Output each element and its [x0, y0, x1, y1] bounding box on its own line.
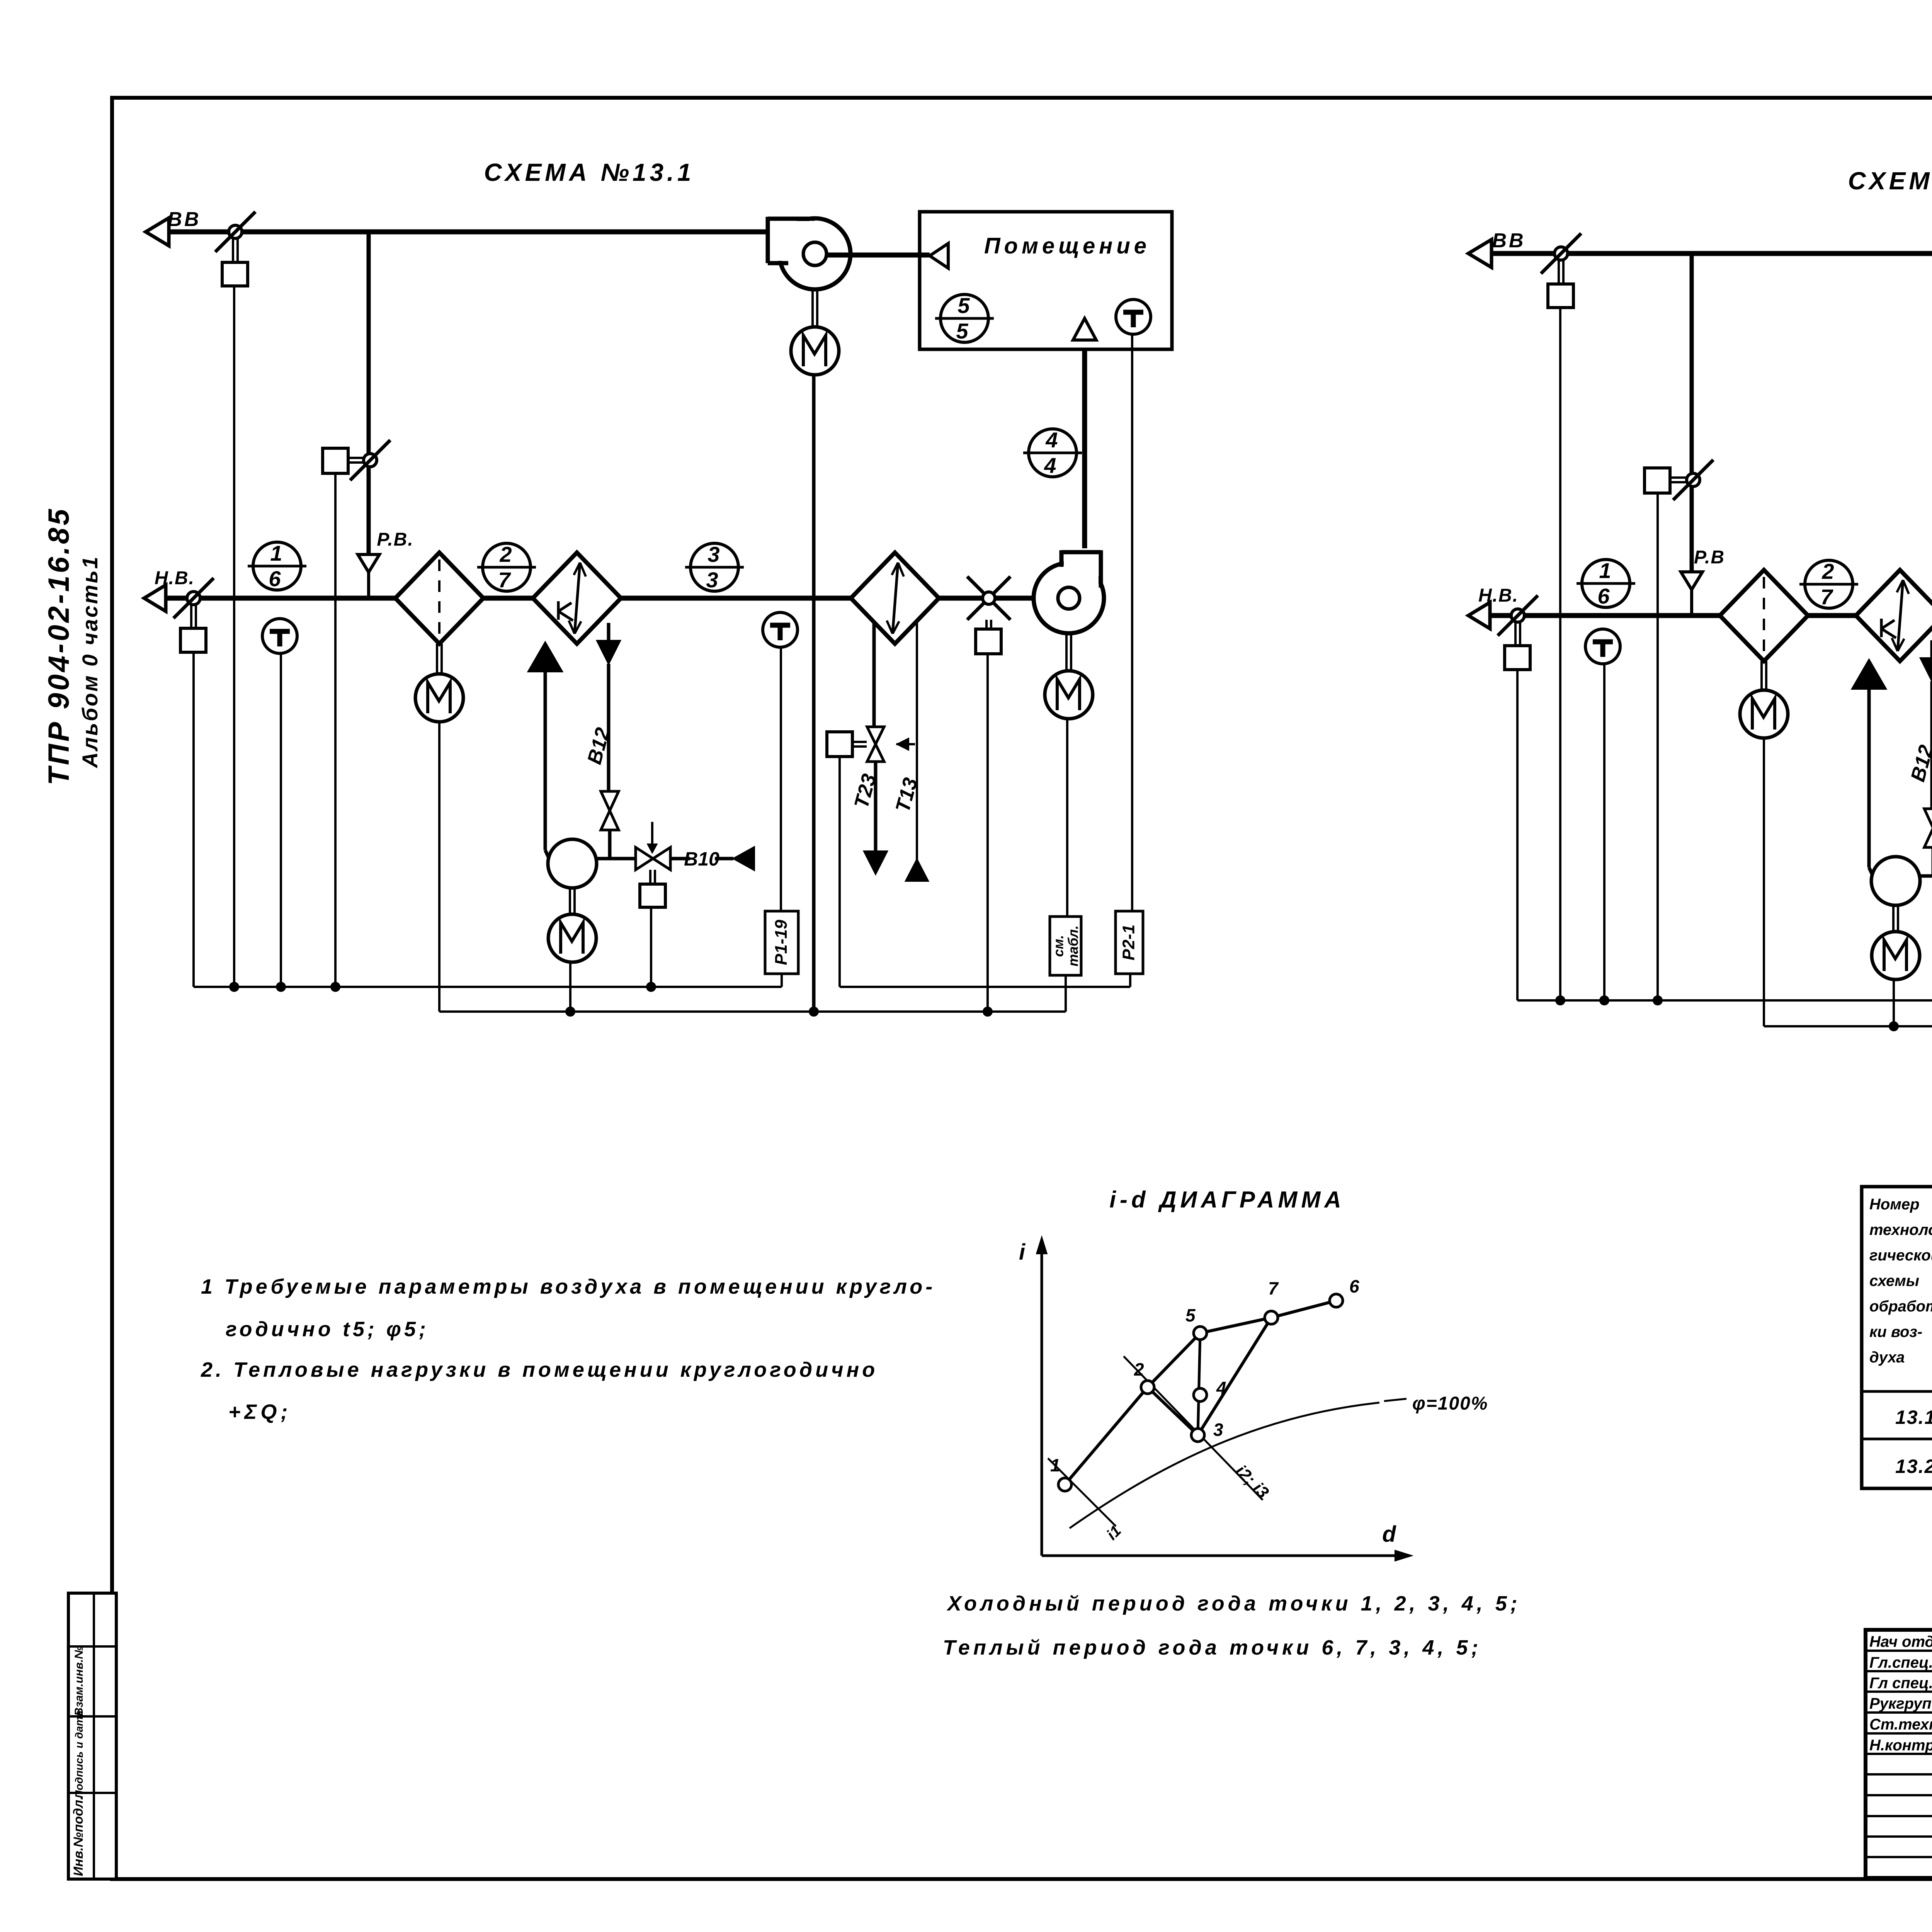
- wire: exhaust duct BB (13.1): [169, 230, 769, 235]
- svg-text:2: 2: [499, 542, 512, 566]
- svg-text:табл.: табл.: [1065, 925, 1081, 966]
- pipe: B12 to mixing point: [608, 830, 612, 859]
- wire: exhaust duct BB (13.2): [1492, 251, 1932, 256]
- wire: control bus A (13.1): [194, 986, 782, 988]
- wire: control segment C (13.1): [840, 986, 1130, 988]
- filter motor shaft: [436, 644, 438, 674]
- i-d process line 1-2: [1065, 1387, 1148, 1485]
- damper HB actuator: [180, 628, 206, 652]
- svg-text:Ст.техн.: Ст.техн.: [1869, 1716, 1932, 1733]
- sensor circle 1/6 (13.2): [1582, 560, 1630, 607]
- svg-text:i: i: [1019, 1240, 1026, 1265]
- arrow BB outlet 13.2 (hollow): [1468, 240, 1492, 267]
- svg-text:Нач отд: Нач отд: [1869, 1633, 1932, 1650]
- svg-text:ВВ: ВВ: [1492, 230, 1526, 252]
- svg-text:6: 6: [1597, 584, 1610, 608]
- wire: recirc damper 13.2 control: [1656, 493, 1659, 1000]
- damper BB 13.2 actuator: [1548, 284, 1573, 308]
- svg-text:Р.В: Р.В: [1694, 547, 1725, 568]
- svg-text:Помещение: Помещение: [984, 233, 1150, 259]
- svg-text:5: 5: [1185, 1305, 1196, 1325]
- svg-text:Гл спец.: Гл спец.: [1869, 1675, 1932, 1692]
- flexible insert (13.1 supply fan): [967, 577, 1010, 620]
- wire: T23 actuator control: [838, 757, 841, 987]
- wire: P2-1 to bus: [1129, 974, 1131, 987]
- valve T23 stem: [852, 741, 867, 743]
- pipe: bend into pump 13.2: [1869, 867, 1873, 876]
- damper on BB duct (13.2): [1554, 247, 1568, 260]
- wire: supply fan motor line upper: [1066, 719, 1068, 917]
- circulation pump (13.1): [548, 839, 597, 888]
- wire: damper HB control line: [192, 652, 195, 987]
- arrow HB inlet (hollow): [144, 585, 166, 611]
- i-d process line 5-7: [1200, 1318, 1271, 1333]
- i-d point 2: [1141, 1381, 1154, 1394]
- svg-text:7: 7: [1268, 1278, 1279, 1298]
- svg-text:13.1: 13.1: [1895, 1406, 1932, 1428]
- wire: CM.TABL to bus: [1065, 975, 1067, 1012]
- pump motor shaft 13.2: [1892, 905, 1895, 932]
- svg-text:7: 7: [1820, 585, 1833, 609]
- wire: flex insert control line: [986, 654, 989, 1012]
- valve T23 actuator: [827, 732, 852, 757]
- svg-text:2. Тепловые нагрузки в поме: 2. Тепловые нагрузки в помещении круглог…: [201, 1358, 878, 1381]
- wire: sensor T control line: [280, 653, 282, 987]
- i-d point 4: [1194, 1388, 1207, 1401]
- i-d isotherm i2i3: [1124, 1356, 1263, 1500]
- pipe: T13: [916, 623, 918, 880]
- pipe: heater return B12: [607, 623, 611, 657]
- sensor circle 2/7: [483, 543, 531, 591]
- svg-text:4: 4: [1045, 428, 1058, 452]
- wire: recirc damper control line: [334, 473, 337, 987]
- svg-text:i-d ДИАГРАММА: i-d ДИАГРАММА: [1109, 1187, 1345, 1213]
- i-d point 6: [1330, 1294, 1343, 1307]
- valve B10 actuator stem: [649, 870, 651, 884]
- pipe: pump to 3-way valve: [597, 857, 636, 861]
- damper HB 13.2 stem: [1514, 622, 1517, 646]
- flex insert actuator stem: [985, 620, 988, 629]
- motor M exhaust fan (13.1): [791, 327, 839, 375]
- hot water supply arrow (filled): [528, 642, 562, 672]
- album table grid: [1862, 1187, 1932, 1488]
- svg-text:5: 5: [956, 319, 968, 343]
- i-d process line 3-7: [1198, 1318, 1271, 1435]
- damper HB actuator stem: [190, 605, 192, 628]
- svg-text:6: 6: [1349, 1276, 1359, 1296]
- wire: valve B10 control line: [650, 907, 652, 987]
- margin stamp divider 1: [68, 1645, 116, 1648]
- pipe: pump to 3-way valve 13.2: [1920, 874, 1932, 878]
- filter (13.1): [395, 553, 483, 644]
- svg-text:ки воз-: ки воз-: [1869, 1323, 1922, 1340]
- valve on B12 13.2: [1924, 809, 1932, 828]
- motor M supply fan (13.1): [1045, 671, 1093, 719]
- room return grille (triangle up): [1073, 318, 1096, 340]
- svg-text:СХЕМА №13.2: СХЕМА №13.2: [1848, 167, 1932, 195]
- exhaust fan (13.1): [779, 218, 850, 289]
- svg-text:4: 4: [1216, 1378, 1226, 1398]
- svg-text:5: 5: [957, 293, 970, 318]
- wire: supply duct segment 3 (13.1): [621, 596, 851, 601]
- circulation pump (13.2): [1871, 857, 1920, 905]
- svg-text:3: 3: [706, 568, 718, 592]
- wire: pump motor line 13.2: [1893, 980, 1895, 1026]
- svg-text:Теплый период года точки: Теплый период года точки 6, 7, 3, 4, 5;: [943, 1636, 1481, 1659]
- svg-text:Инв.№подл.: Инв.№подл.: [71, 1796, 86, 1876]
- pipe: B12 to mixing point 13.2: [1932, 847, 1932, 876]
- wire: funnel to supply duct 13.2: [1690, 590, 1693, 616]
- wire: supply duct segment 4 (13.1): [939, 596, 1058, 601]
- svg-text:ТПР 904-02-16.85: ТПР 904-02-16.85: [43, 507, 75, 785]
- motor M pump (13.2): [1872, 932, 1920, 980]
- svg-text:4: 4: [1044, 453, 1056, 478]
- recirc damper (13.1): [364, 454, 377, 467]
- wire: pump motor line: [569, 962, 571, 1012]
- svg-text:2: 2: [1134, 1359, 1144, 1379]
- pipe: to B10 label: [670, 857, 690, 861]
- wire: damper BB control line: [233, 286, 235, 987]
- sensor T supply duct (13.1): [763, 612, 798, 647]
- i-d axis Y: [1041, 1242, 1043, 1556]
- i-d curve label dash: [1384, 1399, 1406, 1401]
- room box (13.1): [920, 212, 1172, 349]
- i-d process line 3-4-5: [1198, 1333, 1200, 1435]
- svg-text:1: 1: [1599, 558, 1611, 583]
- svg-text:Номер: Номер: [1869, 1196, 1920, 1213]
- svg-text:13.2: 13.2: [1895, 1456, 1932, 1477]
- svg-text:Н.контр.: Н.контр.: [1869, 1737, 1932, 1754]
- svg-text:духа: духа: [1869, 1349, 1905, 1366]
- tag box P2-1 (13.1): [1116, 911, 1143, 974]
- pipe: hot water supply: [544, 670, 547, 850]
- svg-text:2: 2: [1821, 559, 1834, 583]
- svg-text:φ=100%: φ=100%: [1412, 1393, 1488, 1414]
- supply fan (13.1): [1034, 563, 1104, 633]
- funnel P.B. (outdoor air inlet): [358, 554, 379, 572]
- 3-way valve B10 (13.1): [636, 847, 653, 870]
- i-d process line 2-3: [1148, 1387, 1198, 1435]
- damper on HB duct (13.1): [187, 592, 200, 605]
- recirc damper actuator: [323, 448, 348, 473]
- pipe: T23 from heater2: [872, 623, 876, 727]
- wire: filter motor line: [438, 722, 440, 1012]
- svg-text:В10: В10: [684, 848, 719, 870]
- junction dots bus B (13.1): [565, 1007, 575, 1017]
- wire: supply duct segment 1 (13.2): [1490, 613, 1720, 618]
- pipe: B12 down: [607, 664, 611, 791]
- funnel P.B. (13.2): [1681, 572, 1702, 590]
- svg-text:Р.В.: Р.В.: [377, 529, 413, 550]
- i-d axis X: [1042, 1554, 1406, 1557]
- room supply diffuser: [930, 243, 948, 268]
- exhaust fan motor shaft: [811, 289, 814, 327]
- margin stamp divider 2: [68, 1715, 116, 1718]
- wire: supply duct segment 2 (13.1): [483, 596, 533, 601]
- arrow B10 source (filled): [733, 847, 754, 870]
- svg-text:7: 7: [498, 568, 511, 592]
- i-d process line 2-5: [1148, 1333, 1200, 1387]
- svg-text:Р1-19: Р1-19: [772, 920, 791, 965]
- damper HB 13.2 actuator: [1505, 646, 1530, 670]
- sensor circle 2/7 (13.2): [1805, 560, 1853, 608]
- svg-text:схемы: схемы: [1869, 1272, 1919, 1289]
- wire: branch duct to recirc damper (13.2): [1690, 253, 1694, 572]
- svg-text:обработ-: обработ-: [1869, 1298, 1932, 1315]
- pump motor shaft: [569, 888, 571, 914]
- recirc damper (13.2): [1687, 473, 1700, 486]
- pipe: T23 down: [874, 762, 878, 851]
- wire: funnel to supply duct: [367, 572, 370, 598]
- svg-text:3: 3: [1213, 1420, 1223, 1440]
- svg-text:СХЕМА №13.1: СХЕМА №13.1: [484, 158, 695, 186]
- svg-text:Подпись и дата: Подпись и дата: [73, 1711, 85, 1798]
- wire: damper HB 13.2 control: [1516, 670, 1519, 1000]
- arrow BB outlet (hollow): [146, 218, 169, 246]
- sensor T room (13.1): [1116, 299, 1151, 334]
- svg-text:Рукгруп: Рукгруп: [1869, 1695, 1932, 1712]
- arrow into T23 valve: [896, 743, 915, 745]
- sensor circle 3/3: [690, 543, 738, 591]
- tag box CM.TABL (13.1): [1050, 917, 1081, 975]
- damper BB actuator: [222, 262, 248, 286]
- recirc damper 13.2 actuator: [1645, 468, 1670, 493]
- wire: control bus B (13.1): [439, 1010, 1066, 1013]
- svg-text:техноло-: техноло-: [1869, 1221, 1932, 1238]
- motor M filter (13.2): [1740, 690, 1788, 738]
- wire: branch duct to recirculation damper (13.1): [367, 232, 371, 554]
- flex insert actuator: [976, 629, 1001, 654]
- wire: supply duct segment 1 (13.1): [166, 596, 395, 601]
- margin stamp column divider: [93, 1593, 95, 1879]
- valve B10 actuator: [640, 884, 665, 907]
- svg-text:годично t5; φ5;: годично t5; φ5;: [226, 1318, 429, 1341]
- svg-text:1 Требуемые параметры воздух: 1 Требуемые параметры воздуха в помещени…: [201, 1275, 935, 1298]
- svg-text:гической: гической: [1869, 1247, 1932, 1264]
- svg-text:ВВ: ВВ: [167, 208, 201, 231]
- sensor circle 1/6: [253, 542, 301, 590]
- svg-text:Гл.спец.: Гл.спец.: [1869, 1654, 1932, 1671]
- i-d point 1: [1058, 1478, 1071, 1491]
- wire: sensor T 13.2 control: [1603, 664, 1605, 1000]
- sensor circle 4/4 (13.1): [1029, 429, 1077, 477]
- wire: supply fan outlet duct up: [1082, 349, 1087, 548]
- pipe: hot water supply 13.2: [1867, 687, 1871, 867]
- recirc damper actuator stem: [348, 457, 365, 459]
- wire: control bus A (13.2): [1517, 999, 1932, 1002]
- i-d isotherm i1: [1048, 1458, 1116, 1526]
- junction dots bus B (13.2): [1889, 1021, 1899, 1031]
- title block grid: [1866, 1630, 1932, 1878]
- tag box P1-19 (13.1): [765, 911, 798, 974]
- filter 13.2 motor shaft: [1760, 661, 1763, 690]
- wire: supply duct segment 2 (13.2): [1808, 613, 1856, 618]
- sensor T ambient (13.2): [1585, 629, 1620, 664]
- i-d point 5: [1194, 1327, 1207, 1340]
- wire: T to P1-19: [780, 647, 782, 911]
- svg-text:Н.В.: Н.В.: [1478, 585, 1519, 606]
- hot water supply arrow 13.2 (filled): [1852, 660, 1886, 689]
- arrow T13 (filled, up): [906, 859, 928, 881]
- wire: room T to P2-1: [1131, 334, 1133, 911]
- valve on T23: [867, 727, 884, 744]
- i-d point 7: [1265, 1311, 1278, 1324]
- valve on B12: [601, 791, 619, 811]
- arrow HB inlet 13.2 (hollow): [1468, 602, 1490, 629]
- svg-text:Взам.инв.№: Взам.инв.№: [73, 1646, 85, 1716]
- pipe: bend into pump: [545, 850, 549, 859]
- arrow T23 (filled, down): [864, 851, 887, 874]
- i-d process line 7-6: [1271, 1301, 1336, 1318]
- supply fan motor shaft: [1065, 633, 1068, 671]
- wire: control bus B (13.2): [1764, 1025, 1932, 1027]
- motor M pump (13.1): [548, 914, 596, 962]
- arrow B12 13.2 (filled down): [1920, 658, 1932, 681]
- svg-text:Холодный период года точк: Холодный период года точки 1, 2, 3, 4, 5…: [946, 1592, 1521, 1615]
- damper on BB duct (13.1): [229, 225, 242, 238]
- svg-text:1: 1: [270, 541, 282, 565]
- air heater 2 (13.1): [851, 553, 939, 644]
- i-d saturation curve: [1070, 1403, 1379, 1528]
- svg-text:Р2-1: Р2-1: [1119, 925, 1138, 961]
- damper on HB duct (13.2): [1511, 609, 1524, 622]
- wire: damper BB 13.2 control: [1559, 308, 1561, 1000]
- damper BB actuator stem: [232, 238, 234, 262]
- pipe: B10 stub: [715, 857, 733, 861]
- svg-text:d: d: [1382, 1522, 1396, 1547]
- air heater 1 (13.2): [1856, 570, 1932, 661]
- sensor circle 5/5 (room 13.1): [940, 294, 988, 342]
- recirc damper 13.2 stem: [1670, 476, 1688, 479]
- filter (13.2): [1720, 570, 1808, 661]
- pipe: heater return B12 13.2: [1930, 640, 1932, 674]
- svg-text:6: 6: [269, 566, 281, 591]
- svg-text:Н.В.: Н.В.: [155, 568, 195, 588]
- margin stamp table: [68, 1593, 116, 1879]
- junction dots bus A (13.2): [1555, 995, 1565, 1005]
- air heater 1 (13.1): [533, 553, 621, 644]
- svg-text:1: 1: [1050, 1455, 1060, 1475]
- damper BB 13.2 stem: [1558, 260, 1560, 284]
- wire: filter motor line 13.2: [1763, 738, 1765, 1026]
- svg-text:см.: см.: [1051, 935, 1066, 957]
- wire: P1-19 to bus: [781, 974, 783, 987]
- svg-text:Альбом 0 часть1: Альбом 0 часть1: [78, 555, 102, 769]
- junction dots bus A (13.1): [229, 982, 239, 992]
- motor M filter (13.1): [415, 674, 463, 722]
- wire: exhaust fan outlet: [827, 253, 930, 258]
- sensor T ambient (13.1): [262, 619, 297, 653]
- arrow B12 (filled, down): [597, 641, 620, 664]
- svg-text:+ΣQ;: +ΣQ;: [228, 1400, 291, 1423]
- i-d point 3: [1191, 1429, 1204, 1442]
- wire: exhaust fan motor control: [812, 375, 816, 1012]
- svg-text:3: 3: [707, 542, 719, 566]
- margin stamp divider 3: [68, 1792, 116, 1794]
- pipe: B12 down 13.2: [1930, 681, 1932, 809]
